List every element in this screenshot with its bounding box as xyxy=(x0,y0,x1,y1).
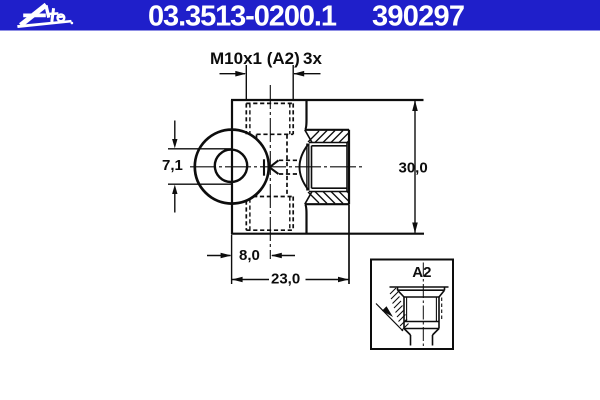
A left diagonal xyxy=(21,5,47,25)
pipe xyxy=(410,335,412,346)
vertical centreline xyxy=(269,85,271,259)
mounting lug outer circle xyxy=(195,130,269,204)
ATE logo xyxy=(17,5,73,28)
svg-text:30,0: 30,0 xyxy=(399,159,428,176)
svg-text:A2: A2 xyxy=(412,264,431,281)
cone xyxy=(404,329,411,336)
horizontal centreline xyxy=(190,166,365,168)
svg-text:03.3513-0200.1: 03.3513-0200.1 xyxy=(148,1,337,33)
inner thread lines of fitting xyxy=(406,297,408,322)
top surface line xyxy=(390,286,449,288)
svg-text:7,1: 7,1 xyxy=(162,157,183,174)
t crossbar xyxy=(48,12,58,15)
horizontal pilot bore hidden lines (right port) xyxy=(279,160,298,174)
top port hidden thread (dashed) xyxy=(246,103,293,134)
thread outer lines xyxy=(309,142,349,144)
A crossbar xyxy=(23,13,46,17)
drill cone claw at centre xyxy=(264,159,279,175)
svg-text:M10x1 (A2): M10x1 (A2) xyxy=(210,49,300,68)
chamfer slants at opening of section xyxy=(305,130,312,143)
svg-text:8,0: 8,0 xyxy=(239,247,260,264)
right edge top segment with fillet into port xyxy=(305,100,307,130)
hatch of mating wall in detail xyxy=(390,288,409,331)
leader arrow in detail xyxy=(376,304,403,332)
svg-text:23,0: 23,0 xyxy=(271,270,300,287)
svg-text:390297: 390297 xyxy=(372,1,465,33)
swoosh underline xyxy=(17,20,72,28)
cone at bore bottom xyxy=(300,144,309,190)
hatching of right port walls xyxy=(308,131,349,204)
socket box xyxy=(312,145,348,147)
top edge xyxy=(231,99,424,101)
e loop xyxy=(58,14,65,21)
bottom edge xyxy=(231,233,424,235)
flange xyxy=(397,287,399,290)
left edge xyxy=(231,100,233,234)
body outline xyxy=(231,100,424,234)
bottom port hidden thread (dashed) xyxy=(246,197,293,231)
header blue bar xyxy=(0,0,600,31)
t stem xyxy=(52,8,54,22)
right port thread/socket xyxy=(300,130,350,204)
bore bottom double line xyxy=(306,144,308,191)
right port section outline xyxy=(305,130,349,204)
body xyxy=(403,297,405,329)
dimension texts xyxy=(162,49,431,287)
mounting lug inner hole 7.1 xyxy=(215,150,247,182)
right edge bottom segment with fillet xyxy=(305,204,307,234)
A right side xyxy=(46,5,49,17)
svg-text:3x: 3x xyxy=(303,49,322,68)
centreline of detail xyxy=(422,263,424,348)
vertical pilot bore hidden lines xyxy=(257,135,288,197)
trademark dot xyxy=(71,22,74,25)
